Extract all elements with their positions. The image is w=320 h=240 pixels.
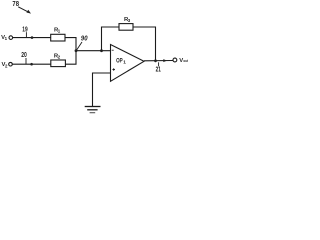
wire feedback right to output <box>133 27 156 61</box>
resistor R3 <box>119 17 133 30</box>
op-amp OP1 <box>111 45 145 82</box>
ground <box>85 107 101 113</box>
wire op-amp output <box>144 60 173 62</box>
wire R2 to summing node <box>65 51 76 64</box>
svg-text:1: 1 <box>123 59 126 65</box>
svg-text:78: 78 <box>12 0 19 8</box>
wire non-inverting input to ground <box>93 73 111 106</box>
wire V2 to R2 <box>12 63 51 65</box>
input terminal V2 <box>2 62 13 68</box>
resistor R1 <box>51 27 65 41</box>
wire summing node to inverting input <box>76 50 111 52</box>
svg-text:90: 90 <box>81 34 88 43</box>
output terminal Vout <box>173 58 189 64</box>
svg-text:out: out <box>183 59 188 63</box>
svg-text:20: 20 <box>21 50 27 59</box>
svg-text:OP: OP <box>116 57 123 64</box>
wire V1 to R1 <box>13 37 51 39</box>
node 19 <box>22 24 33 39</box>
node 90 summing junction <box>75 34 89 53</box>
node feedback tap junction <box>100 49 103 52</box>
wire feedback left vertical <box>102 27 120 51</box>
node 21 output junction <box>154 59 161 73</box>
svg-text:19: 19 <box>22 24 27 33</box>
wire R1 to summing node <box>65 38 76 51</box>
output arrow <box>163 59 167 62</box>
figure callout 78 <box>12 0 31 14</box>
node 20 <box>21 50 33 66</box>
input terminal V1 <box>1 35 13 41</box>
resistor R2 <box>51 54 66 67</box>
